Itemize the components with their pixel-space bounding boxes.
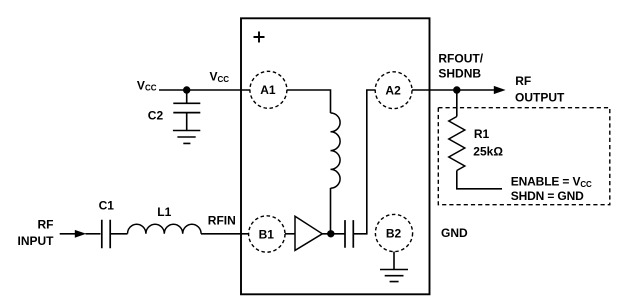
svg-text:INPUT: INPUT: [18, 234, 55, 248]
svg-text:GND: GND: [441, 226, 468, 240]
svg-text:SHDNB: SHDNB: [438, 67, 481, 81]
svg-text:A2: A2: [385, 84, 401, 98]
svg-text:B1: B1: [259, 227, 275, 241]
svg-text:RFOUT/: RFOUT/: [438, 51, 483, 65]
svg-text:25kΩ: 25kΩ: [473, 144, 503, 158]
svg-text:L1: L1: [157, 205, 171, 219]
svg-text:SHDN = GND: SHDN = GND: [511, 189, 584, 203]
svg-text:C2: C2: [148, 108, 164, 122]
svg-text:RF: RF: [38, 218, 54, 232]
svg-text:RFIN: RFIN: [208, 213, 236, 227]
svg-text:ENABLE = VCC: ENABLE = VCC: [511, 175, 592, 189]
svg-text:B2: B2: [386, 226, 402, 240]
svg-text:OUTPUT: OUTPUT: [515, 90, 565, 104]
svg-text:RF: RF: [515, 74, 531, 88]
svg-text:A1: A1: [260, 83, 276, 97]
svg-text:C1: C1: [99, 199, 115, 213]
svg-text:R1: R1: [474, 127, 490, 141]
